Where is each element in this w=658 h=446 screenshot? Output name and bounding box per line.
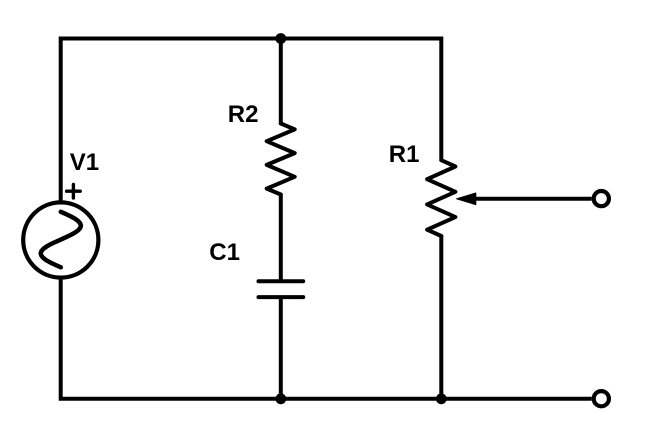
svg-text:R2: R2	[228, 101, 259, 128]
svg-text:C1: C1	[209, 239, 240, 266]
svg-text:V1: V1	[70, 149, 99, 176]
svg-text:R1: R1	[389, 141, 420, 168]
